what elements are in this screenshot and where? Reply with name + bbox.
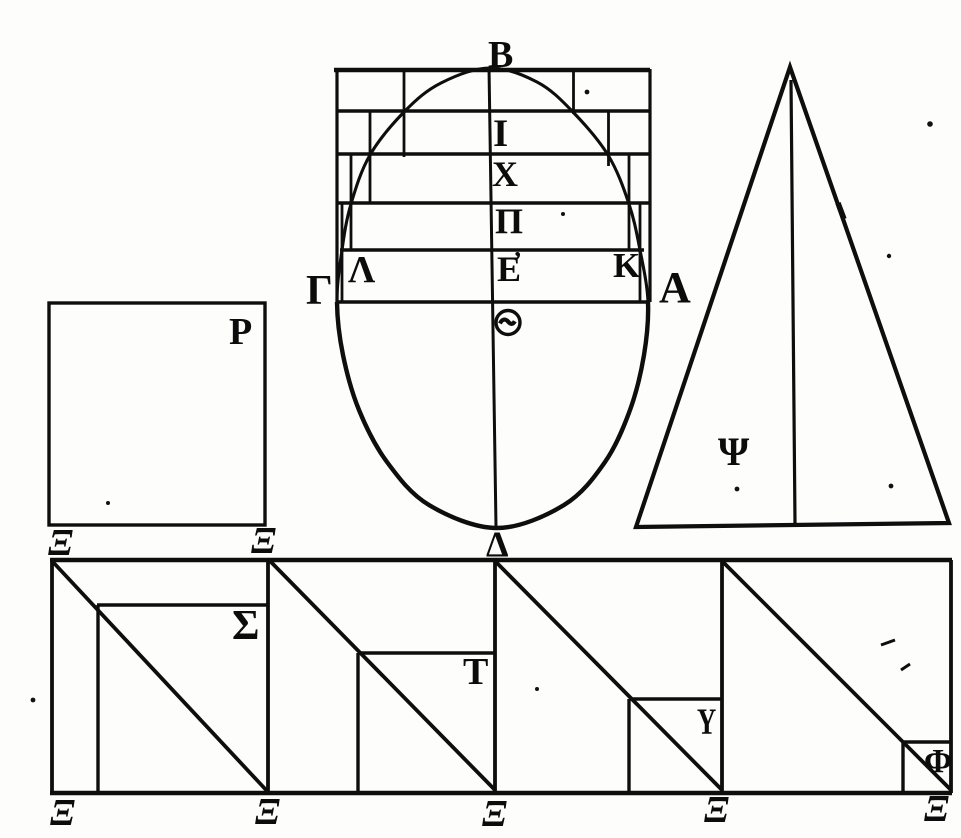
step vertical x=404 rows1-2 [403, 70, 406, 157]
diameter line Gamma-Alpha y=302 [337, 300, 648, 304]
svg-text:’: ’ [513, 246, 522, 276]
svg-text:Σ: Σ [232, 603, 259, 649]
bottom strip top line [50, 558, 952, 562]
svg-text:Ξ: Ξ [482, 793, 507, 835]
step vertical x=370 rows2-3 [369, 111, 372, 203]
svg-text:B: B [488, 34, 513, 76]
svg-text:Ξ: Ξ [50, 792, 75, 834]
square3 diagonal [495, 561, 722, 790]
square1 step horizontal [97, 603, 268, 606]
step vertical x=629 rows3-4 [628, 154, 631, 250]
nick on triangle right edge [838, 203, 844, 219]
row boundary y=111 [336, 109, 650, 113]
triangle median [791, 80, 795, 523]
svg-text:Γ: Γ [306, 268, 333, 314]
step vertical x=342 rows4-5 [341, 203, 344, 302]
row boundary y=203 [337, 201, 650, 205]
step vertical x=351 rows3-4 [350, 154, 353, 250]
stack right edge [648, 69, 651, 302]
square4 step horizontal [903, 740, 951, 743]
triangle Psi [636, 67, 949, 527]
square1 step vertical [96, 605, 99, 793]
svg-text:Ξ: Ξ [704, 789, 729, 831]
strip divider x=722 [720, 560, 724, 793]
svg-text:P: P [229, 311, 252, 353]
step vertical x=608 rows2-3 [607, 112, 610, 166]
bottom strip bottom line [50, 791, 952, 795]
square P outline [49, 303, 265, 525]
square2 step vertical [356, 653, 359, 793]
strip divider x=495 [493, 560, 497, 793]
speck dots [31, 90, 933, 703]
oval (egg outline, axis B to Delta) [337, 68, 648, 302]
svg-text:Δ: Δ [486, 524, 509, 564]
svg-text:Ξ: Ξ [255, 791, 280, 833]
square4 step vertical [901, 742, 904, 792]
svg-text:I: I [493, 112, 508, 155]
speck dashes [881, 640, 895, 645]
svg-text:X: X [492, 154, 518, 194]
stack left edge [335, 72, 338, 302]
square1 diagonal [52, 561, 268, 792]
svg-text:Ψ: Ψ [718, 429, 750, 474]
strip divider x=52 [50, 560, 54, 793]
square2 step horizontal [358, 651, 495, 654]
strip divider x=268 [266, 560, 270, 793]
top tangent line at B [334, 68, 650, 73]
svg-text:Λ: Λ [348, 249, 376, 291]
axis B-Delta [489, 67, 496, 527]
square4 diagonal [722, 561, 951, 790]
svg-text:K: K [613, 246, 640, 285]
row boundary y=154 [336, 152, 651, 156]
svg-text:T: T [463, 651, 488, 693]
square3 step horizontal [629, 697, 722, 700]
square2 diagonal [270, 561, 495, 790]
strip divider x=951 [949, 560, 953, 793]
oval lower arc [337, 302, 648, 528]
svg-text:Φ: Φ [924, 743, 952, 780]
svg-text:Ξ: Ξ [48, 522, 73, 564]
svg-text:Υ: Υ [697, 701, 716, 742]
svg-text:Ξ: Ξ [251, 520, 276, 562]
square3 step vertical [627, 699, 630, 793]
step vertical x=573 rows1-2 [572, 72, 575, 114]
row boundary y=250 [340, 248, 644, 252]
theta mark squiggle [500, 320, 515, 324]
svg-text:A: A [659, 263, 691, 312]
theta mark circle [496, 311, 520, 335]
step vertical x=640 rows4-5 [639, 203, 642, 302]
svg-text:Π: Π [495, 201, 523, 241]
svg-text:Ξ: Ξ [924, 788, 949, 830]
